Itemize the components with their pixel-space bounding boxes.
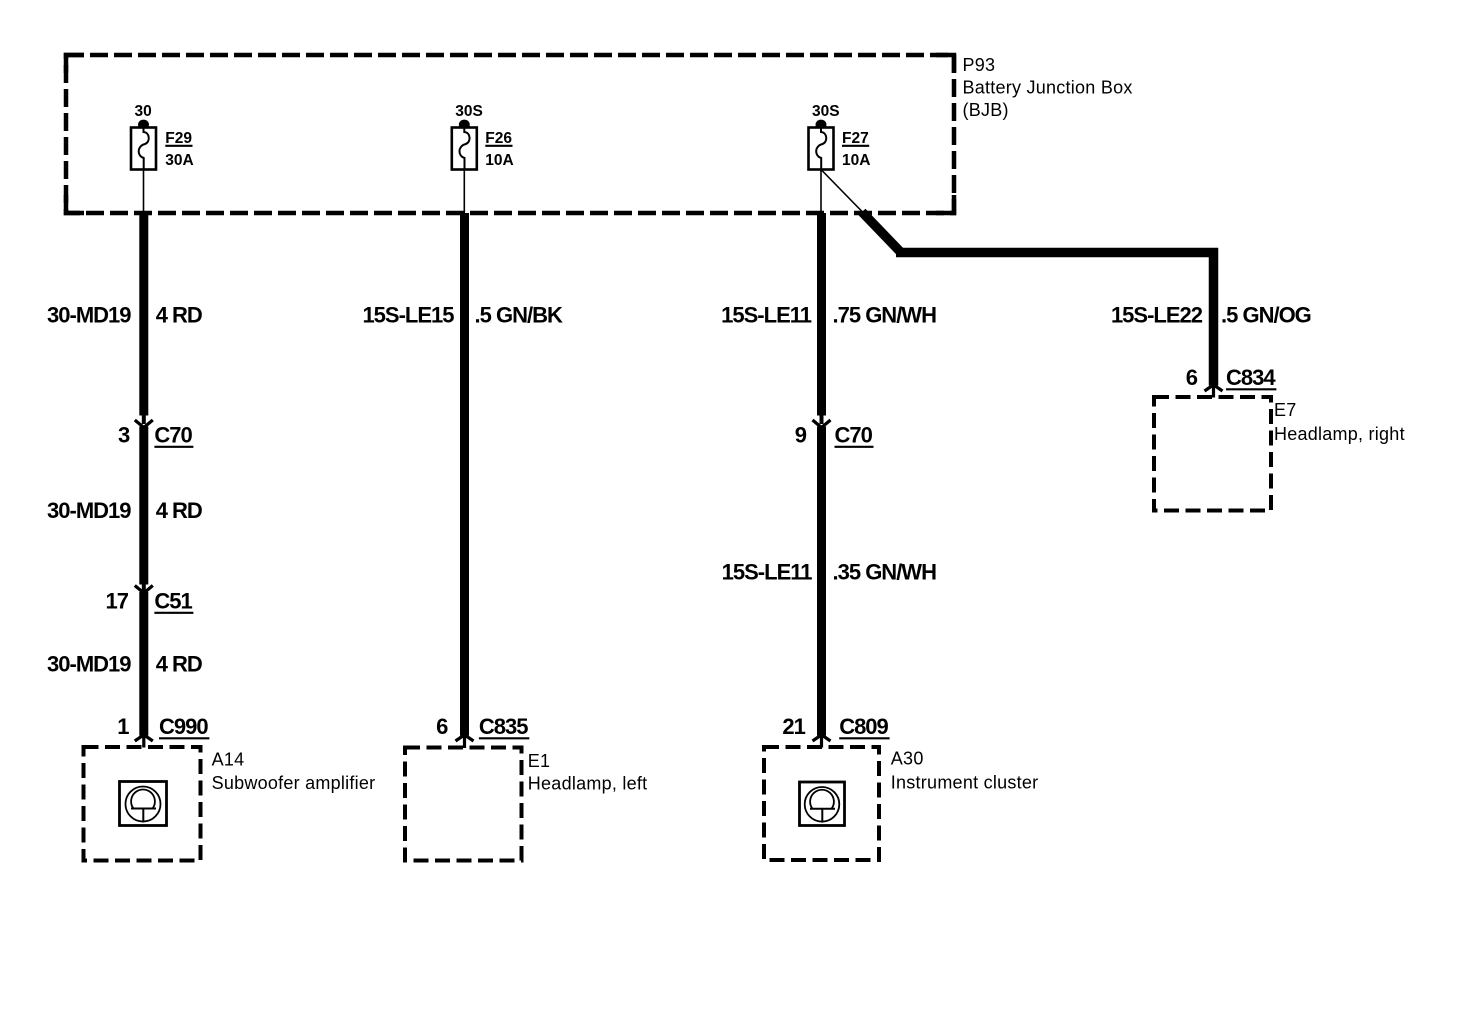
wire 15S-LE22 thick diagonal from BJB <box>862 212 901 253</box>
svg-text:10A: 10A <box>485 152 513 169</box>
fuse F29 designator <box>165 130 192 147</box>
wire: F26 lead inside BJB <box>463 170 465 215</box>
connector C835 pin 6 labels <box>436 714 529 739</box>
wire 30-MD19 segment 2 (C70 to C51) <box>139 427 148 585</box>
wire 30-MD19 segment 1 (F29 to C70) <box>139 213 148 416</box>
battery junction box P93 (dashed enclosure) <box>66 55 954 213</box>
connector C834 entry arrow into E7 <box>1205 385 1223 398</box>
connector C70 pin 9 (inline) <box>813 416 831 428</box>
connector C70 pin 9 labels <box>795 423 874 448</box>
circuit label 15S-LE11 / .75 GN/WH <box>721 303 936 328</box>
svg-text:C834: C834 <box>1226 365 1276 390</box>
svg-text:4 RD: 4 RD <box>156 652 202 677</box>
circuit label 30-MD19 / 4 RD (segment 1) <box>47 303 202 328</box>
svg-text:.5 GN/OG: .5 GN/OG <box>1221 303 1311 328</box>
svg-text:A14: A14 <box>212 750 245 770</box>
A30 cluster icon <box>800 782 845 826</box>
svg-text:21: 21 <box>782 714 805 739</box>
svg-text:15S-LE15: 15S-LE15 <box>362 303 454 328</box>
circuit label 15S-LE22 / .5 GN/OG <box>1111 303 1311 328</box>
svg-text:E1: E1 <box>528 751 551 771</box>
svg-text:(BJB): (BJB) <box>963 100 1009 120</box>
circuit label 30-MD19 / 4 RD (segment 3) <box>47 652 202 677</box>
svg-text:30-MD19: 30-MD19 <box>47 498 131 523</box>
fuse F26 <box>452 120 477 170</box>
svg-text:17: 17 <box>106 589 129 614</box>
svg-text:30S: 30S <box>812 103 840 120</box>
circuit label 30-MD19 / 4 RD (segment 2) <box>47 498 202 523</box>
connector C809 pin 21 labels <box>782 714 889 739</box>
circuit label 15S-LE15 / .5 GN/BK <box>362 303 563 328</box>
svg-text:Headlamp, left: Headlamp, left <box>528 774 648 794</box>
svg-text:1: 1 <box>117 714 129 739</box>
svg-text:C990: C990 <box>159 714 208 739</box>
fuse F26 designator <box>485 130 512 147</box>
svg-text:F27: F27 <box>842 130 869 147</box>
svg-text:3: 3 <box>118 423 130 448</box>
wire 15S-LE22 horizontal + vertical run to C834 <box>896 253 1214 386</box>
device box A30 (dashed) <box>764 747 879 860</box>
svg-text:30: 30 <box>135 103 152 120</box>
svg-text:.35 GN/WH: .35 GN/WH <box>833 560 937 585</box>
device box E7 (dashed) <box>1154 397 1271 511</box>
connector C834 pin 6 labels <box>1186 365 1277 390</box>
wire 15S-LE11 segment 1 (F27 to C70) <box>817 213 826 416</box>
svg-text:Subwoofer amplifier: Subwoofer amplifier <box>212 773 376 793</box>
svg-text:C835: C835 <box>479 714 528 739</box>
E7 device label <box>1274 400 1405 444</box>
connector C70 pin 3 labels <box>118 423 193 448</box>
A14 device label <box>212 750 376 794</box>
svg-text:6: 6 <box>1186 365 1198 390</box>
svg-text:9: 9 <box>795 423 807 448</box>
connector C809 entry arrow into A30 <box>813 735 831 748</box>
connector C51 pin 17 (inline) <box>135 585 153 594</box>
svg-text:15S-LE11: 15S-LE11 <box>721 303 812 328</box>
svg-text:Headlamp, right: Headlamp, right <box>1274 424 1405 444</box>
svg-text:.5 GN/BK: .5 GN/BK <box>475 303 563 328</box>
svg-text:E7: E7 <box>1274 400 1297 420</box>
svg-text:C70: C70 <box>154 423 192 448</box>
svg-text:A30: A30 <box>891 749 924 769</box>
fuse F27 designator <box>842 130 869 147</box>
svg-text:.75 GN/WH: .75 GN/WH <box>833 303 937 328</box>
connector C51 pin 17 labels <box>106 589 194 614</box>
svg-text:F26: F26 <box>485 130 512 147</box>
connector C990 entry arrow into A14 <box>135 735 153 748</box>
connector C990 pin 1 labels <box>117 714 209 739</box>
svg-text:Instrument cluster: Instrument cluster <box>891 773 1039 793</box>
svg-text:15S-LE22: 15S-LE22 <box>1111 303 1203 328</box>
wire 15S-LE11 segment 2 (C70 to C809) <box>817 427 826 736</box>
svg-text:4 RD: 4 RD <box>156 498 202 523</box>
wire: F27 lead inside BJB <box>820 170 822 215</box>
svg-text:P93: P93 <box>963 55 996 75</box>
connector C835 entry arrow into E1 <box>456 735 474 748</box>
svg-text:6: 6 <box>436 714 448 739</box>
device box E1 (dashed) <box>405 748 522 861</box>
fuse F29 <box>131 120 156 170</box>
connector C70 pin 3 (inline) <box>135 416 153 428</box>
svg-text:C70: C70 <box>835 423 873 448</box>
wire: F27 thin branch lead to right circuit <box>822 170 864 213</box>
wire 15S-LE15 (F26 to C835) <box>460 213 469 736</box>
circuit label 15S-LE11 / .35 GN/WH <box>722 560 936 585</box>
svg-text:F29: F29 <box>165 130 192 147</box>
svg-text:4 RD: 4 RD <box>156 303 202 328</box>
A14 speaker icon <box>120 782 167 826</box>
svg-text:Battery Junction Box: Battery Junction Box <box>963 78 1133 98</box>
P93 label <box>963 55 1133 120</box>
svg-text:C51: C51 <box>154 589 192 614</box>
svg-text:30S: 30S <box>455 103 483 120</box>
svg-text:C809: C809 <box>839 714 888 739</box>
svg-text:15S-LE11: 15S-LE11 <box>722 560 813 585</box>
wire: F29 lead inside BJB <box>143 170 145 215</box>
wire 30-MD19 segment 3 (C51 to C990) <box>139 592 148 736</box>
fuse F27 <box>809 120 834 170</box>
svg-text:30A: 30A <box>165 152 193 169</box>
device box A14 (dashed) <box>84 747 201 861</box>
svg-text:10A: 10A <box>842 152 870 169</box>
E1 device label <box>528 751 648 794</box>
svg-text:30-MD19: 30-MD19 <box>47 652 131 677</box>
svg-text:30-MD19: 30-MD19 <box>47 303 131 328</box>
A30 device label <box>891 749 1039 793</box>
